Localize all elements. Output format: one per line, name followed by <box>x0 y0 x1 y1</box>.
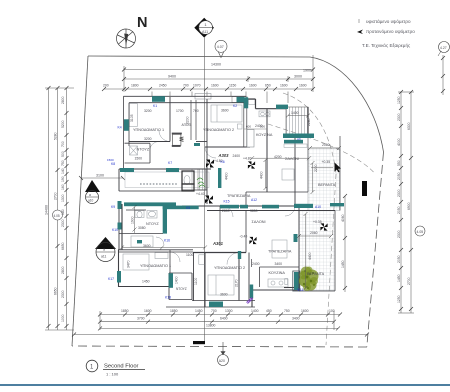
svg-text:a: a <box>103 248 105 252</box>
svg-text:1100: 1100 <box>194 278 198 285</box>
svg-text:6650: 6650 <box>54 287 58 295</box>
svg-text:A20: A20 <box>219 359 225 363</box>
svg-text:+0.35: +0.35 <box>313 220 322 224</box>
svg-text:ΝΤΟΥΖ: ΝΤΟΥΖ <box>176 287 187 291</box>
svg-text:4000: 4000 <box>397 138 401 146</box>
svg-text:3200: 3200 <box>144 109 152 113</box>
svg-text:1600: 1600 <box>280 84 288 88</box>
svg-text:3105: 3105 <box>130 114 134 122</box>
svg-text:1600: 1600 <box>211 84 219 88</box>
svg-text:1300: 1300 <box>61 194 65 202</box>
svg-text:5280: 5280 <box>54 132 58 140</box>
svg-text:450: 450 <box>266 309 272 313</box>
svg-text:750: 750 <box>61 160 65 166</box>
svg-text:a11: a11 <box>101 255 107 259</box>
svg-text:4.05: 4.05 <box>417 230 424 234</box>
svg-text:700: 700 <box>211 309 217 313</box>
svg-text:1000: 1000 <box>61 314 65 322</box>
svg-text:K6: K6 <box>221 160 225 164</box>
svg-text:1450: 1450 <box>397 274 401 282</box>
svg-text:2400: 2400 <box>233 154 241 158</box>
svg-text:Second Floor: Second Floor <box>104 363 139 369</box>
svg-text:2450: 2450 <box>159 84 167 88</box>
svg-text:2300: 2300 <box>61 290 65 298</box>
svg-text:14400: 14400 <box>45 205 49 215</box>
svg-text:ΣΑΛΟΝΙ: ΣΑΛΟΝΙ <box>252 220 266 224</box>
svg-text:9400: 9400 <box>168 75 176 79</box>
svg-text:1500: 1500 <box>135 157 143 161</box>
svg-text:3600: 3600 <box>220 293 228 297</box>
svg-text:K7: K7 <box>168 161 172 165</box>
svg-text:3600: 3600 <box>221 109 229 113</box>
svg-text:3100: 3100 <box>96 174 104 178</box>
svg-text:K18: K18 <box>165 296 171 300</box>
svg-text:N: N <box>137 15 147 31</box>
svg-text:600: 600 <box>246 125 251 129</box>
svg-text:a: a <box>89 193 91 197</box>
svg-text:1400: 1400 <box>291 111 299 115</box>
svg-text:1150: 1150 <box>229 84 236 88</box>
svg-text:750: 750 <box>284 309 290 313</box>
svg-text:2800: 2800 <box>61 266 65 274</box>
svg-text:4400: 4400 <box>260 171 264 179</box>
svg-text:ΚΟΥΖΙΝΑ: ΚΟΥΖΙΝΑ <box>269 271 286 275</box>
svg-text:6400: 6400 <box>220 316 228 320</box>
svg-text:υφιστάμενο υψόμετρο: υφιστάμενο υψόμετρο <box>366 18 411 24</box>
svg-text:K1: K1 <box>153 104 157 108</box>
svg-text:200: 200 <box>103 84 109 88</box>
svg-text:700: 700 <box>183 84 189 88</box>
svg-text:2060: 2060 <box>322 143 330 147</box>
svg-text:ΥΠΝΟΔΩΜΑΤΙΟ 1: ΥΠΝΟΔΩΜΑΤΙΟ 1 <box>133 128 164 132</box>
svg-text:K8: K8 <box>111 162 115 166</box>
svg-text:-0.40: -0.40 <box>240 235 248 239</box>
svg-text:ΥΠΝΟΔΩΜΑΤΙΟ 1: ΥΠΝΟΔΩΜΑΤΙΟ 1 <box>140 264 171 268</box>
svg-text:1600: 1600 <box>301 309 309 313</box>
svg-text:2060: 2060 <box>310 231 318 235</box>
svg-text:2800: 2800 <box>61 96 65 104</box>
svg-text:A12: A12 <box>251 198 257 202</box>
svg-text:2400: 2400 <box>252 262 260 266</box>
svg-text:ΤΡΑΠΕΖΑΡΙΑ: ΤΡΑΠΕΖΑΡΙΑ <box>227 194 251 198</box>
svg-text:a10: a10 <box>88 199 94 203</box>
svg-text:3400: 3400 <box>275 262 283 266</box>
svg-text:100: 100 <box>329 309 335 313</box>
svg-text:2200: 2200 <box>314 164 318 172</box>
svg-text:1600: 1600 <box>249 84 257 88</box>
svg-text:2170: 2170 <box>235 279 239 287</box>
svg-text:3080: 3080 <box>138 226 146 230</box>
svg-text:6650: 6650 <box>61 242 65 250</box>
svg-text:3470: 3470 <box>127 260 131 268</box>
svg-text:1600: 1600 <box>144 309 152 313</box>
svg-text:K4: K4 <box>118 126 122 130</box>
svg-text:1850: 1850 <box>121 309 129 313</box>
svg-text:1100: 1100 <box>186 253 193 257</box>
svg-text:προτεινόμενο υψόμετρο: προτεινόμενο υψόμετρο <box>366 28 415 34</box>
svg-text:4400: 4400 <box>225 172 229 180</box>
svg-text:1250: 1250 <box>397 96 401 104</box>
svg-text:140: 140 <box>61 168 65 174</box>
svg-text:1800: 1800 <box>131 84 139 88</box>
svg-text:K2: K2 <box>233 104 237 108</box>
svg-text:K17: K17 <box>108 277 114 281</box>
svg-text:ΚΟΥΖΙΝΑ: ΚΟΥΖΙΝΑ <box>256 133 273 137</box>
svg-text:4.27: 4.27 <box>440 46 447 50</box>
svg-text:2700: 2700 <box>54 192 58 200</box>
svg-text:1900: 1900 <box>131 216 135 224</box>
svg-text:2050: 2050 <box>397 206 401 214</box>
svg-text:ΤΡΑΠΕΖΑΡΙΑ: ΤΡΑΠΕΖΑΡΙΑ <box>268 249 292 253</box>
svg-text:4060: 4060 <box>341 214 345 222</box>
svg-text:14300: 14300 <box>211 63 221 67</box>
svg-text:2300: 2300 <box>397 230 401 238</box>
svg-text:2800: 2800 <box>222 209 230 213</box>
svg-text:2280: 2280 <box>307 118 311 126</box>
svg-text:ΣΑΛΟΝΙ: ΣΑΛΟΝΙ <box>285 157 299 161</box>
svg-text:700: 700 <box>61 141 65 147</box>
svg-text:160: 160 <box>61 184 65 190</box>
svg-text:1 : 100: 1 : 100 <box>106 372 119 377</box>
svg-text:500: 500 <box>61 151 65 157</box>
svg-text:2400: 2400 <box>255 124 263 128</box>
svg-text:13800: 13800 <box>206 324 216 328</box>
svg-text:Φ11: Φ11 <box>297 288 303 292</box>
svg-text:3200: 3200 <box>144 137 152 141</box>
svg-text:1900: 1900 <box>303 69 311 73</box>
svg-text:K15: K15 <box>224 200 230 204</box>
svg-text:700: 700 <box>193 109 199 113</box>
svg-text:ΒΕΡΑΝΤΑ: ΒΕΡΑΝΤΑ <box>307 272 325 276</box>
svg-text:4400: 4400 <box>308 252 312 260</box>
svg-text:1450: 1450 <box>142 280 150 284</box>
svg-text:3850: 3850 <box>250 209 258 213</box>
svg-text:650: 650 <box>265 84 271 88</box>
svg-text:Τ.Ε. Τεχνικός Εξαιρεμής: Τ.Ε. Τεχνικός Εξαιρεμής <box>362 42 411 49</box>
svg-text:2700: 2700 <box>407 277 411 285</box>
svg-text:+4.40: +4.40 <box>196 192 205 196</box>
svg-text:ΥΠΝΟΔΩΜΑΤΙΟ 2: ΥΠΝΟΔΩΜΑΤΙΟ 2 <box>214 266 245 270</box>
svg-text:+0.35: +0.35 <box>322 160 331 164</box>
svg-text:K16: K16 <box>164 239 170 243</box>
svg-text:1450: 1450 <box>195 309 203 313</box>
svg-text:2200: 2200 <box>186 116 190 124</box>
svg-text:5200: 5200 <box>61 120 65 128</box>
svg-text:6300: 6300 <box>407 122 411 130</box>
svg-text:4.05: 4.05 <box>54 214 60 218</box>
svg-text:ΒΕΡΑΝΤΑ: ΒΕΡΑΝΤΑ <box>318 183 336 187</box>
svg-text:1400: 1400 <box>175 276 179 284</box>
svg-text:A301: A301 <box>212 241 224 246</box>
svg-text:2050: 2050 <box>397 255 401 263</box>
svg-text:A11: A11 <box>202 30 208 34</box>
svg-text:3700: 3700 <box>137 316 145 320</box>
svg-text:2300: 2300 <box>61 219 65 227</box>
svg-text:3400: 3400 <box>292 316 300 320</box>
svg-text:3000: 3000 <box>294 75 302 79</box>
svg-text:ΝΤΟΥΖ: ΝΤΟΥΖ <box>146 222 159 226</box>
svg-text:2300: 2300 <box>397 113 401 121</box>
svg-text:2300: 2300 <box>397 189 401 197</box>
svg-text:6900: 6900 <box>407 202 411 210</box>
svg-text:190: 190 <box>61 176 65 182</box>
svg-text:A303: A303 <box>218 153 230 158</box>
svg-text:K9: K9 <box>111 205 115 209</box>
svg-text:1850: 1850 <box>170 309 178 313</box>
svg-text:2050: 2050 <box>397 172 401 180</box>
svg-text:1400: 1400 <box>251 309 259 313</box>
svg-text:550: 550 <box>397 160 401 166</box>
svg-text:K10: K10 <box>112 228 118 232</box>
svg-text:1700: 1700 <box>176 109 184 113</box>
svg-text:ΝΤΟΥΖ: ΝΤΟΥΖ <box>137 148 150 152</box>
svg-text:1250: 1250 <box>397 295 401 303</box>
svg-text:ΥΠΝΟΔΩΜΑΤΙΟ 2: ΥΠΝΟΔΩΜΑΤΙΟ 2 <box>203 128 234 132</box>
svg-text:A10: A10 <box>315 205 321 209</box>
svg-text:K5: K5 <box>186 206 190 210</box>
svg-text:1450: 1450 <box>341 260 345 268</box>
svg-text:1300: 1300 <box>225 309 233 313</box>
svg-text:A9: A9 <box>297 137 301 141</box>
svg-text:1600: 1600 <box>299 84 307 88</box>
svg-text:1070: 1070 <box>193 84 201 88</box>
svg-text:180: 180 <box>61 209 65 215</box>
svg-text:4.07: 4.07 <box>217 45 224 49</box>
svg-text:1500: 1500 <box>107 158 114 162</box>
